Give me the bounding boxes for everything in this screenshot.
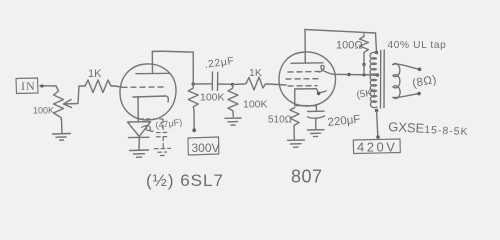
wire IN to pot <box>40 85 56 87</box>
svg-text:IN: IN <box>21 79 36 93</box>
807 plate top wire <box>305 30 376 34</box>
wire 1K to grid <box>114 86 122 87</box>
wire plate to node A <box>152 51 193 83</box>
svg-text:(½) 6SL7: (½) 6SL7 <box>146 171 224 190</box>
diode D1 cathode bias <box>128 122 151 137</box>
6SL7 plate <box>136 72 170 74</box>
svg-text:1K: 1K <box>249 67 262 79</box>
svg-text:1K: 1K <box>88 68 102 80</box>
svg-text:300V: 300V <box>192 141 220 155</box>
wire down to primary top <box>376 33 377 52</box>
wire to 807 grid <box>268 84 286 85</box>
807 plate <box>291 62 323 65</box>
wire wiper to 1K <box>64 86 83 104</box>
lead to 300V <box>193 110 195 129</box>
300V box <box>188 137 219 155</box>
807 cathode <box>295 89 326 94</box>
807 screen hook wire <box>319 65 334 74</box>
wire node B to 1K <box>233 83 245 85</box>
807 plate lead <box>304 30 306 64</box>
svg-text:100K: 100K <box>200 92 225 104</box>
svg-text:100K: 100K <box>33 106 54 116</box>
807 beam plates (dashed) <box>288 85 317 87</box>
svg-text:420V: 420V <box>357 140 397 155</box>
node dot at IN <box>40 84 43 87</box>
wire cap to node B <box>218 83 233 85</box>
svg-text:807: 807 <box>291 167 323 187</box>
807 cathode blob <box>317 92 321 96</box>
primary bottom dot <box>375 109 379 113</box>
resistor R4 100K grid leak <box>228 84 238 116</box>
resistor R7 100 ohm screen <box>360 34 369 64</box>
dot above 420V <box>376 135 380 139</box>
807 control grid (dashed) <box>288 71 322 74</box>
T1 secondary winding <box>393 63 400 98</box>
resistor R5 1K grid stopper <box>244 77 268 90</box>
resistor R3 100K plate load <box>188 84 198 110</box>
dot on R7 lead <box>362 63 365 66</box>
T1 core <box>381 50 385 108</box>
secondary top lead <box>393 64 419 69</box>
wire node A to cap <box>193 83 212 85</box>
junction dot screen wire 1 <box>347 73 350 76</box>
6SL7 cathode lead <box>137 97 139 122</box>
input terminal IN box <box>16 78 38 94</box>
resistor R2 1K <box>82 80 114 93</box>
secondary top dot <box>418 68 422 72</box>
svg-text:100K: 100K <box>243 99 268 111</box>
pot wiper arrow <box>64 100 72 108</box>
ground pot <box>53 134 71 141</box>
R7 lead to screen wire <box>363 65 365 75</box>
ground D1 <box>130 150 149 157</box>
807 screen grid (dashed) <box>286 78 318 80</box>
D1 squiggle label <box>142 125 154 131</box>
tube V2 807 envelope <box>279 52 336 106</box>
tap dot <box>376 73 380 77</box>
ground R6 <box>288 140 305 147</box>
svg-text:510Ω: 510Ω <box>268 115 293 126</box>
resistor R6 510 ohm <box>290 108 299 140</box>
svg-text:100Ω: 100Ω <box>336 39 363 51</box>
pot ground lead <box>61 120 64 133</box>
transformer T1 primary winding <box>370 52 377 107</box>
node B dot <box>231 83 234 86</box>
secondary bottom dot <box>417 92 421 96</box>
capacitor C3 220uF <box>315 106 317 111</box>
ground C3 <box>308 130 325 137</box>
dot above 300V <box>192 128 196 132</box>
420V box <box>353 139 400 154</box>
primary top dot <box>375 51 379 55</box>
capacitor C1 .22uF <box>212 72 217 91</box>
D1 ground lead <box>138 138 140 151</box>
junction dot screen wire 2 <box>362 73 365 76</box>
potentiometer R1 100K <box>54 86 64 120</box>
primary lead to 420V <box>377 111 378 137</box>
svg-text:40% UL tap: 40% UL tap <box>388 40 447 51</box>
6SL7 plate lead <box>151 52 153 74</box>
6SL7 cathode <box>133 96 168 102</box>
6SL7 grid (dashed) <box>122 86 163 88</box>
screen wire to tap <box>334 73 378 76</box>
ground R4 <box>225 118 241 125</box>
tube V1 6SL7 envelope <box>120 64 176 120</box>
dashed capacitor C2 (47uF) <box>140 119 171 156</box>
node A dot <box>192 82 195 85</box>
807 cathode lead <box>294 89 296 106</box>
cathode junction wire <box>295 105 317 107</box>
secondary bottom lead <box>393 94 419 98</box>
